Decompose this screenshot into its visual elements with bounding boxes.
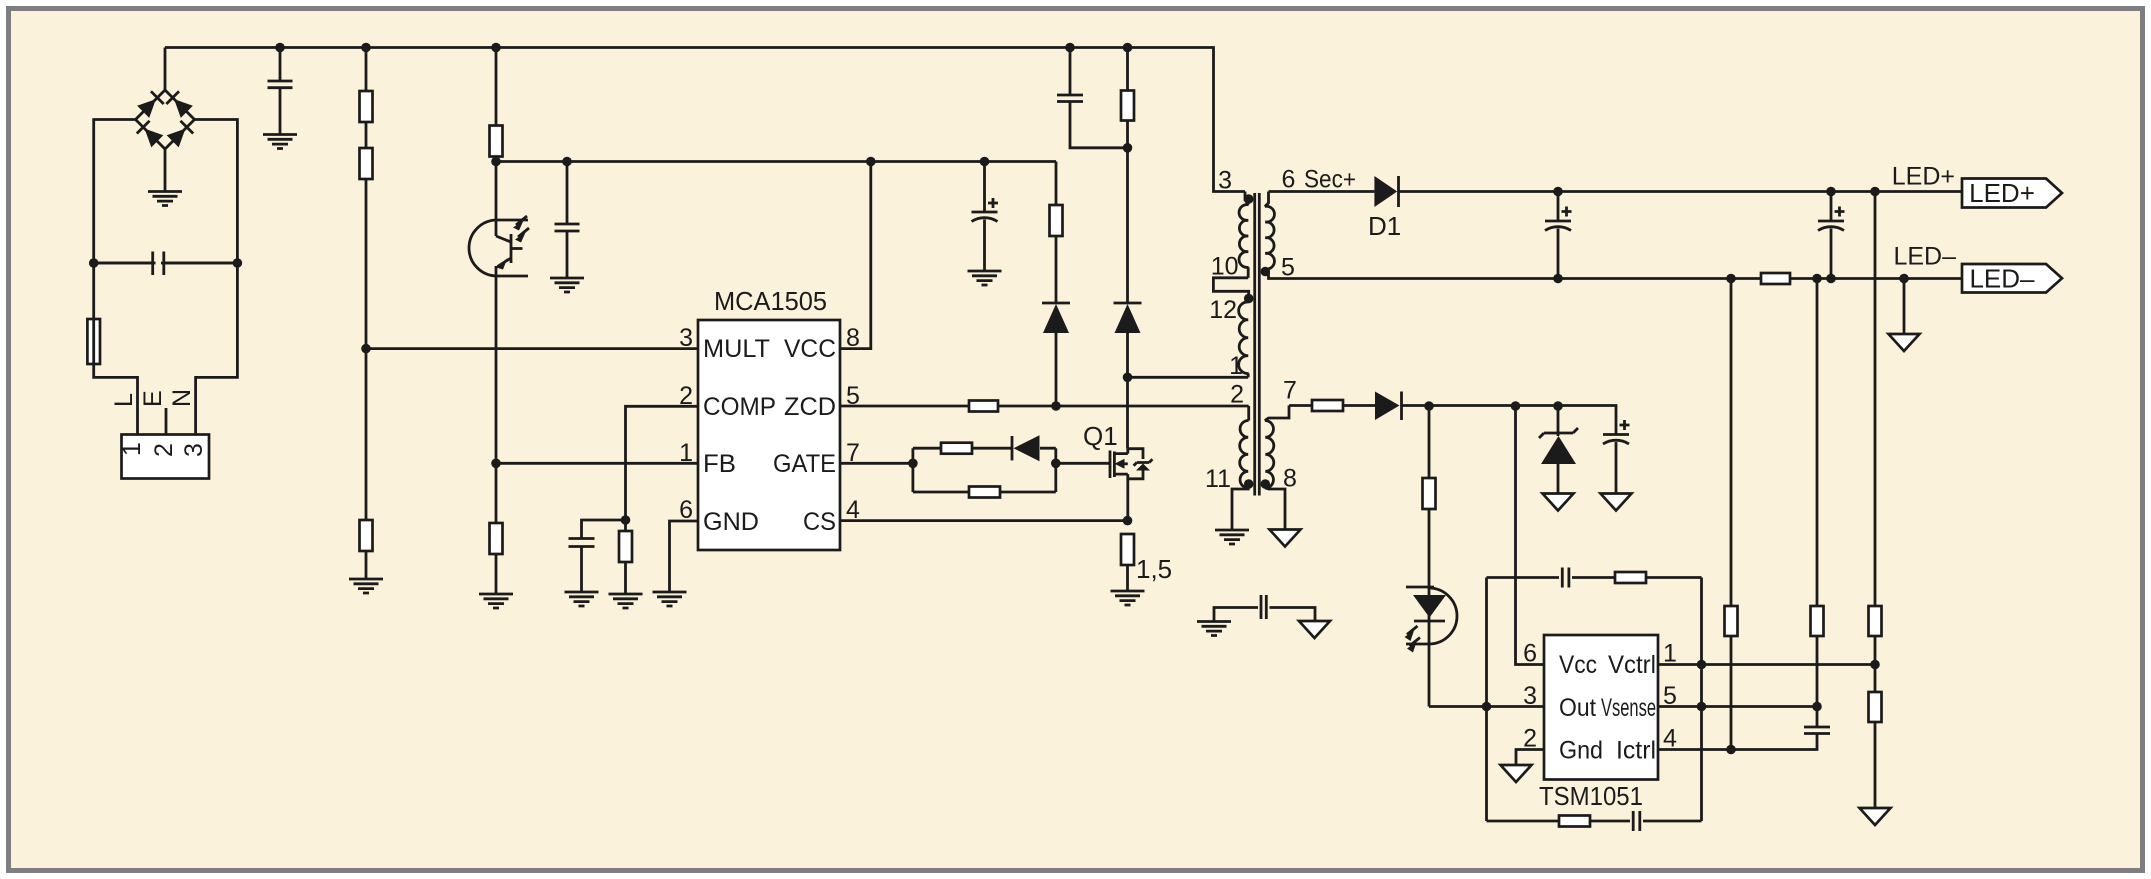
node LED- at Ictrl column xyxy=(1726,274,1736,284)
node LED- ground stub xyxy=(1899,274,1909,284)
resistor R16 (comp upper) xyxy=(1615,572,1702,583)
capacitor C3 (polarized, VCC) xyxy=(972,162,999,272)
node C7 top xyxy=(1553,187,1563,197)
capacitor C9 (aux supply electrolytic) xyxy=(1603,420,1630,494)
resistor R4 (VCC rail to clamp diode) xyxy=(1050,162,1063,304)
svg-text:3: 3 xyxy=(180,443,208,457)
comp loop lower: wire xyxy=(1487,820,1560,823)
wire L: pin1 up to fuse xyxy=(94,364,138,435)
node FB xyxy=(491,459,501,469)
svg-text:1: 1 xyxy=(118,442,146,456)
comp loop left vertical xyxy=(1485,578,1488,822)
node VCC rail at R3 xyxy=(491,157,501,167)
svg-text:LED+: LED+ xyxy=(1969,178,2035,208)
wire: top DC bus rail xyxy=(165,48,1245,192)
node: X-cap left xyxy=(89,258,99,268)
ground (C3) xyxy=(968,271,1002,285)
svg-text:Ictrl: Ictrl xyxy=(1616,737,1656,765)
capacitor C12 (Vsense filter) xyxy=(1804,727,1830,734)
ground (R8) xyxy=(609,594,643,608)
node: T1 phase dot pin 8 xyxy=(1261,479,1271,489)
wire: ZCD pin 5 to transformer pin 2 xyxy=(840,405,969,408)
resistor R8 (COMP) xyxy=(619,520,632,594)
node on top rail at filter cap xyxy=(275,43,285,53)
resistor R18 (Ictrl from LED-) xyxy=(1725,279,1738,750)
ground (C9, chassis) xyxy=(1601,494,1632,511)
ground (C5) xyxy=(565,592,599,606)
resistor R9 (ZCD) xyxy=(969,401,1249,412)
resistor R2 (MULT divider middle) xyxy=(360,122,373,349)
ground (bridge) xyxy=(148,192,182,206)
resistor R11 (gate lower) xyxy=(969,487,1000,498)
wire: Vctrl pin 1 xyxy=(1658,663,1875,666)
ground (LED- chassis) xyxy=(1889,334,1920,351)
node: primary pin1 tee xyxy=(1123,373,1133,383)
svg-text:3: 3 xyxy=(1218,167,1232,195)
light arrows into phototransistor xyxy=(516,216,527,225)
ground (R7) xyxy=(479,594,513,608)
node on top rail at snubber cap xyxy=(1065,43,1075,53)
connector LED+ flag xyxy=(1962,178,2062,208)
node C7 bottom xyxy=(1553,274,1563,284)
node on top rail at VCC start-up resistor xyxy=(491,43,501,53)
node: T1 phase dot pin 5 xyxy=(1261,267,1271,277)
node VCC rail at C3 xyxy=(980,157,990,167)
wire: CS pin 4 to source xyxy=(840,519,1128,522)
resistor R19 (Vsense from LED-) xyxy=(1811,279,1824,728)
wire: LED+ rail xyxy=(1269,190,1963,193)
svg-text:MULT: MULT xyxy=(703,335,770,363)
T1 lower primary winding 2-11 xyxy=(1232,406,1249,530)
svg-text:D1: D1 xyxy=(1368,211,1401,241)
node C8 bottom xyxy=(1826,274,1836,284)
svg-text:Vcc: Vcc xyxy=(1559,651,1597,679)
wire E: pin2 stub xyxy=(165,408,168,435)
opto-coupler phototransistor U2A xyxy=(469,162,529,464)
capacitor C11 (comp lower) xyxy=(1633,811,1701,831)
diode upper-right of bridge xyxy=(166,91,193,118)
resistor R21 (Vctrl divider lower) xyxy=(1869,692,1882,808)
node gate right xyxy=(1051,459,1061,469)
node aux rail at opto resistor xyxy=(1424,401,1434,411)
node: T1 phase dot pin 3 xyxy=(1244,194,1254,204)
capacitor C10 (comp upper) xyxy=(1562,568,1615,588)
node Vctrl at divider xyxy=(1870,660,1880,670)
resistor R20 (Vctrl divider upper) xyxy=(1869,192,1882,693)
node LED- at Vsense column xyxy=(1812,274,1822,284)
diode D4 (gate turn-off) xyxy=(1012,435,1040,461)
resistor R3 (VCC start-up) xyxy=(490,48,503,162)
resistor R1 (MULT divider upper) xyxy=(360,48,373,123)
snubber resistor R5 xyxy=(1121,48,1134,148)
diode lower-left of bridge xyxy=(137,121,164,148)
wire: LED- rail xyxy=(1290,277,1962,280)
node Vsense at RC xyxy=(1812,702,1822,712)
ground (R6) xyxy=(349,579,383,593)
ground (T1 pin 11) xyxy=(1215,530,1249,544)
opto-coupler LED U2B xyxy=(1405,587,1458,707)
svg-text:GATE: GATE xyxy=(773,450,836,478)
diode D3 (clamp, right) xyxy=(1114,148,1142,377)
node: snubber junction xyxy=(1123,143,1133,153)
bridge rectifier B1 xyxy=(136,90,195,149)
wire: Gnd pin 2 xyxy=(1516,750,1544,766)
svg-text:GND: GND xyxy=(703,508,759,536)
zener diode D6 xyxy=(1539,406,1578,494)
wire: left branch up to bridge xyxy=(94,120,136,264)
svg-text:N: N xyxy=(168,389,196,407)
resistor R7 (FB pull-down) xyxy=(490,463,503,594)
resistor R13 (current sense in LED- line) xyxy=(1761,273,1790,284)
wire: Vcc pin 6 up to aux rail xyxy=(1516,406,1545,665)
node aux rail at zener xyxy=(1553,401,1563,411)
node VCC rail at C2 xyxy=(562,157,572,167)
wire: bridge plus up to top rail xyxy=(164,48,167,91)
T1 aux winding 12-1 xyxy=(1239,302,1249,377)
T1 secondary winding 6-5 xyxy=(1265,192,1290,279)
node gate left xyxy=(908,459,918,469)
wire: Ictrl pin 4 xyxy=(1658,734,1817,750)
wire: VCC rail xyxy=(496,160,1056,163)
ground (R12) xyxy=(1111,591,1145,605)
node: ZCD line at clamp diode xyxy=(1051,401,1061,411)
svg-text:Vsense: Vsense xyxy=(1601,694,1656,722)
svg-text:Gnd: Gnd xyxy=(1559,737,1603,765)
svg-text:10: 10 xyxy=(1211,253,1239,281)
svg-text:L: L xyxy=(110,393,138,407)
diode D1 (secondary rectifier) xyxy=(1368,176,1401,241)
node MULT xyxy=(361,344,371,354)
node: X-cap right xyxy=(233,258,243,268)
node CS/source xyxy=(1123,516,1133,526)
svg-text:LED–: LED– xyxy=(1893,243,1956,271)
ground (C2) xyxy=(550,278,584,292)
comp loop right vertical xyxy=(1700,578,1703,822)
svg-text:ZCD: ZCD xyxy=(784,393,836,421)
wire: GND pin 6 xyxy=(670,521,699,592)
node COMP network xyxy=(621,515,631,525)
capacitor C2 (VCC bypass) xyxy=(555,162,580,279)
T1 pin 10-12 jog xyxy=(1213,278,1248,302)
Q1 body zener diode xyxy=(1134,459,1153,465)
T1 primary winding 3-10 xyxy=(1239,192,1249,278)
node aux rail at TSM Vcc xyxy=(1511,401,1521,411)
op-amp controller IC2 TSM1051 xyxy=(1523,635,1677,811)
wire: GATE pin 7 xyxy=(840,462,913,465)
node C8 top xyxy=(1826,187,1836,197)
capacitor C5 (COMP) xyxy=(569,520,626,592)
capacitor C8 (output electrolytic 2) xyxy=(1818,192,1845,279)
svg-text:VCC: VCC xyxy=(784,335,836,363)
node Vsense at comp xyxy=(1697,702,1707,712)
ground (T1 pin 8, chassis) xyxy=(1270,530,1301,547)
node Ictrl xyxy=(1726,745,1736,755)
svg-text:FB: FB xyxy=(703,450,736,478)
wire: bridge minus down to ground xyxy=(164,149,167,192)
svg-text:7: 7 xyxy=(1283,377,1297,405)
resistor R17 (comp lower) xyxy=(1559,816,1630,827)
node Vctrl at comp xyxy=(1697,660,1707,670)
resistor R14 (aux rectifier series) xyxy=(1312,400,1375,411)
svg-text:Out: Out xyxy=(1559,694,1596,722)
svg-text:1,5: 1,5 xyxy=(1136,554,1172,584)
svg-text:LED–: LED– xyxy=(1969,264,2035,294)
svg-text:TSM1051: TSM1051 xyxy=(1539,781,1643,811)
resistor R15 (opto LED series) xyxy=(1423,406,1436,587)
op-amp controller IC1 MCA1505 xyxy=(679,286,860,550)
svg-text:Sec+: Sec+ xyxy=(1304,166,1356,194)
svg-text:MCA1505: MCA1505 xyxy=(714,286,827,316)
comp loop upper: wire xyxy=(1487,576,1560,579)
wire: Vsense pin 5 xyxy=(1658,705,1817,708)
connector X1 (mains input 1/2/3) xyxy=(118,435,209,479)
capacitor CX (X-cap across mains) xyxy=(94,252,238,276)
svg-text:E: E xyxy=(139,390,167,407)
ground (zener, chassis) xyxy=(1543,494,1574,511)
node on top rail at snubber resistor xyxy=(1123,43,1133,53)
diode D5 (aux rectifier) xyxy=(1375,392,1616,435)
node LED+ at divider column xyxy=(1870,187,1880,197)
wire: VCC pin 8 up to rail xyxy=(840,162,871,349)
node on top rail at divider resistors xyxy=(361,43,371,53)
wire: COMP pin 2 xyxy=(626,406,699,520)
svg-text:12: 12 xyxy=(1209,296,1237,324)
light arrows out of LED xyxy=(1407,626,1418,635)
svg-text:6: 6 xyxy=(1282,166,1296,194)
wire: MULT pin 3 xyxy=(366,347,698,350)
gate network loop wires xyxy=(913,448,1056,492)
svg-text:2: 2 xyxy=(150,443,178,457)
wire: LED- ground stub xyxy=(1903,279,1906,335)
svg-text:11: 11 xyxy=(1205,465,1231,493)
wire: FB pin 1 xyxy=(496,462,698,465)
node VCC rail at VCC pin wire xyxy=(866,157,876,167)
ground (Y-cap right, chassis) xyxy=(1299,621,1330,638)
diode upper-left of bridge xyxy=(137,91,164,118)
svg-text:COMP: COMP xyxy=(703,393,776,421)
ground (divider, chassis) xyxy=(1860,808,1891,825)
node: T1 phase dot pin 12 xyxy=(1244,294,1254,304)
svg-text:8: 8 xyxy=(1283,465,1297,493)
svg-text:Q1: Q1 xyxy=(1083,421,1118,451)
wire: Out pin 3 to opto LED xyxy=(1429,705,1544,708)
connector LED- flag xyxy=(1962,264,2062,294)
svg-text:Vctrl: Vctrl xyxy=(1608,651,1656,679)
wire: aux secondary pin 7 line xyxy=(1289,404,1312,407)
svg-text:1: 1 xyxy=(1229,352,1243,380)
wire: right branch up to bridge xyxy=(195,120,238,264)
wire: fuse up to X-cap node xyxy=(92,263,95,319)
ground (IC1 GND) xyxy=(653,592,687,606)
snubber capacitor C4 xyxy=(1057,48,1128,148)
wire: transformer pin1 stub xyxy=(1128,376,1249,379)
resistor R10 (gate series) xyxy=(941,443,972,454)
transformer T1 core xyxy=(1255,193,1260,496)
svg-text:2: 2 xyxy=(1230,381,1244,409)
resistor R6 (MULT lower divider) xyxy=(360,349,373,579)
capacitor C1 (bus filter) xyxy=(268,48,293,135)
capacitor C7 (output electrolytic 1) xyxy=(1545,192,1572,279)
resistor R12 value 1,5 (current sense) xyxy=(1121,534,1172,591)
node Out/comp loop xyxy=(1482,702,1492,712)
diode D2 (clamp, left) xyxy=(1042,303,1070,406)
wire N: pin3 up right side xyxy=(196,263,238,435)
ground (C1) xyxy=(263,135,297,149)
fuse F1 xyxy=(87,319,100,364)
ground (Y-cap left) xyxy=(1197,622,1231,636)
svg-text:CS: CS xyxy=(803,508,836,536)
node: T1 phase dot pin 11 xyxy=(1244,479,1254,489)
svg-text:LED+: LED+ xyxy=(1892,163,1955,191)
wire: drain rail down from clamp xyxy=(1126,377,1129,448)
wire: gate to Q1 xyxy=(1056,462,1111,465)
T1 aux secondary winding 7-8 xyxy=(1265,406,1289,530)
ground (IC2 Gnd, chassis) xyxy=(1501,765,1532,782)
transistor Q1 (power MOSFET) xyxy=(1083,421,1152,521)
capacitor C6 (Y-cap primary/secondary bridge) xyxy=(1214,595,1315,622)
diode lower-right of bridge xyxy=(166,121,193,148)
